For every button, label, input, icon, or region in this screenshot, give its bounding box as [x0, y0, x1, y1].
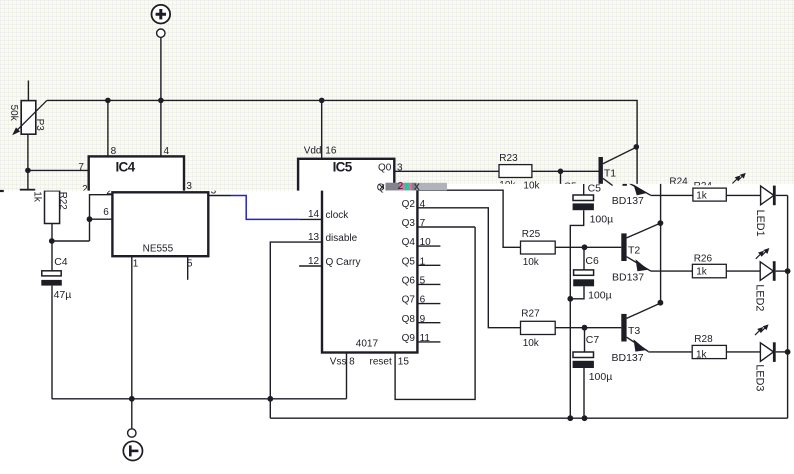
ground rail 1 — [52, 398, 347, 400]
transistor T1 (fresh fragments) — [623, 159, 651, 195]
transistor T3 — [621, 303, 660, 352]
resistor R22 (fresh box) — [45, 191, 60, 224]
wire power rail — [47, 100, 637, 184]
redraw smudge artifact — [377, 181, 447, 194]
LED1 — [761, 186, 788, 206]
svg-text:C5: C5 — [588, 182, 602, 194]
wire Vss to gnd — [346, 353, 348, 399]
wire R24 to LED1 — [726, 194, 760, 196]
svg-text:1: 1 — [420, 256, 426, 267]
svg-text:2: 2 — [398, 181, 404, 192]
svg-text:100µ: 100µ — [589, 371, 613, 383]
svg-text:15: 15 — [398, 357, 410, 368]
svg-text:Q7: Q7 — [402, 295, 416, 306]
svg-text:10k: 10k — [523, 180, 540, 191]
pin 16 wire (Vdd) — [321, 100, 323, 158]
node dot LED3/rail — [785, 349, 791, 355]
wire pin7 to IC4 — [28, 169, 89, 171]
svg-text:8: 8 — [111, 146, 117, 157]
ground rail 2 — [270, 417, 787, 419]
svg-text:11: 11 — [420, 333, 431, 344]
svg-text:1: 1 — [133, 259, 139, 270]
pin stubs Q4-Q9 — [417, 246, 440, 342]
svg-text:LED2: LED2 — [753, 284, 765, 311]
wire Q1 to R25 — [417, 190, 520, 247]
svg-text:T2: T2 — [628, 244, 640, 256]
potentiometer P3 — [12, 81, 47, 191]
wire T3 emitter to R28 — [648, 351, 692, 353]
svg-text:IC5: IC5 — [333, 159, 353, 174]
wire Q0 to R23 — [394, 170, 499, 172]
IC4 box (stale) — [89, 156, 184, 196]
svg-text:Q9: Q9 — [402, 333, 416, 344]
LED2 emission arrows — [756, 249, 769, 259]
node dot C6 tap — [582, 244, 588, 250]
svg-text:NE555: NE555 — [143, 243, 174, 254]
node dot T1 collector — [634, 144, 640, 150]
svg-text:1k: 1k — [696, 267, 708, 278]
svg-text:Vdd: Vdd — [304, 145, 322, 156]
svg-text:3: 3 — [186, 181, 192, 192]
capacitor C6 — [570, 247, 594, 298]
svg-text:T1: T1 — [604, 167, 616, 179]
wire pin 1 down — [131, 256, 133, 399]
node junction rail2/C5-C6 — [567, 415, 573, 421]
svg-text:1k: 1k — [696, 190, 708, 201]
wire disable pin — [270, 242, 322, 418]
svg-text:IC4: IC4 — [116, 159, 136, 174]
svg-text:Q Carry: Q Carry — [326, 257, 361, 268]
ghost label R24 (fresh, sliver) — [694, 181, 713, 192]
svg-text:BD137: BD137 — [612, 352, 644, 364]
wire pin6 stub — [90, 218, 113, 220]
svg-text:BD137: BD137 — [612, 195, 644, 207]
node dot P3/pin7 — [25, 168, 31, 174]
wire R25 to T2 base — [555, 246, 621, 248]
grid band (top region) — [0, 0, 794, 191]
svg-text:Vss: Vss — [330, 357, 347, 368]
svg-text:C4: C4 — [54, 256, 68, 268]
svg-text:R26: R26 — [694, 253, 713, 264]
wire reset to Q3 — [395, 227, 475, 399]
svg-text:8: 8 — [349, 357, 355, 368]
ground connector — [123, 399, 142, 461]
svg-text:clock: clock — [326, 210, 350, 221]
svg-text:100µ: 100µ — [588, 290, 612, 302]
svg-text:50k: 50k — [8, 105, 19, 122]
resistor R28 — [692, 345, 726, 358]
wire Q Carry stub — [299, 265, 322, 267]
wire supply to rail — [160, 37, 162, 100]
svg-text:R23: R23 — [499, 153, 518, 164]
wire R27 to T3 base — [555, 327, 621, 329]
vertical collector rail — [660, 148, 662, 303]
transistor T1 (stale) base bar — [599, 157, 603, 184]
svg-text:LED3: LED3 — [754, 364, 766, 391]
wire R23 to T1 base — [532, 170, 599, 172]
node junction rail/pin8 — [105, 98, 111, 104]
svg-text:disable: disable — [326, 233, 358, 244]
stale R22 top edge fragment — [20, 189, 35, 191]
node dot T3 collector — [658, 300, 664, 306]
svg-text:47µ: 47µ — [54, 289, 72, 301]
resistor R23 — [499, 165, 532, 178]
node junction rail2/C7 — [582, 415, 588, 421]
svg-text:Q2: Q2 — [402, 199, 416, 210]
node junction rail/Vdd — [319, 98, 325, 104]
wire T1 emitter to R24 — [651, 194, 693, 196]
capacitor C4 — [41, 241, 62, 399]
svg-text:1k: 1k — [31, 191, 42, 203]
svg-text:5: 5 — [420, 276, 426, 287]
node dot T2 collector — [658, 220, 664, 226]
svg-text:R25: R25 — [522, 229, 541, 240]
svg-text:C6: C6 — [585, 255, 599, 267]
wire pin2 L-shape — [90, 195, 113, 241]
svg-text:4: 4 — [420, 199, 426, 210]
svg-text:9: 9 — [420, 314, 426, 325]
IC5 box (stale) — [298, 159, 394, 199]
svg-text:16: 16 — [325, 145, 337, 156]
resistor R24 — [693, 188, 726, 201]
svg-text:Q8: Q8 — [402, 314, 416, 325]
wire Q2 to R27 — [417, 208, 520, 328]
svg-text:Q6: Q6 — [402, 276, 416, 287]
wire T2 emitter to R26 — [651, 270, 692, 272]
stale fragment left edge — [0, 190, 4, 192]
transistor T2 — [621, 223, 660, 271]
resistor R27 — [521, 321, 556, 334]
resistor R26 — [692, 264, 726, 278]
svg-text:10: 10 — [420, 237, 432, 248]
svg-text:Q5: Q5 — [402, 256, 416, 267]
svg-text:13: 13 — [308, 232, 320, 243]
node dot C5 tap — [558, 169, 564, 175]
node dot R22/C4 — [49, 238, 55, 244]
wire C5 stub (stale) — [560, 171, 562, 184]
svg-text:12: 12 — [308, 256, 320, 267]
node dot C7 tap — [582, 325, 588, 331]
svg-text:Q4: Q4 — [402, 237, 416, 248]
svg-text:LED1: LED1 — [754, 210, 766, 237]
right rail — [787, 195, 789, 418]
svg-text:6: 6 — [420, 295, 426, 306]
LED3 — [760, 342, 787, 362]
wire R28 to LED3 — [726, 351, 760, 353]
svg-text:P3: P3 — [34, 119, 45, 132]
svg-text:R27: R27 — [521, 309, 540, 320]
LED3 emission arrows — [755, 325, 768, 335]
node dot gnd/pin1 — [129, 396, 135, 402]
stale T1 emitter stub (spills below band) — [603, 178, 613, 185]
svg-text:10k: 10k — [523, 338, 540, 349]
svg-text:R22: R22 — [57, 192, 68, 210]
pin 8 wire — [107, 100, 109, 156]
resistor R25 — [521, 241, 556, 254]
svg-text:14: 14 — [308, 209, 320, 220]
svg-text:7: 7 — [78, 162, 84, 173]
pin 4 wire — [160, 100, 162, 156]
svg-text:4: 4 — [164, 146, 170, 157]
svg-text:1k: 1k — [696, 350, 708, 361]
node dot LED2/rail — [785, 268, 791, 274]
wire blue net to clock — [232, 196, 300, 220]
svg-text:4017: 4017 — [356, 339, 379, 350]
svg-text:Q3: Q3 — [402, 218, 416, 229]
node dot disable/gnd — [267, 396, 273, 402]
svg-text:BD137: BD137 — [612, 271, 644, 283]
svg-text:Q0: Q0 — [378, 163, 392, 174]
capacitor C7 — [573, 328, 594, 419]
svg-text:T3: T3 — [628, 325, 640, 337]
IC5 box (fresh, top cut) — [322, 161, 417, 353]
svg-text:R28: R28 — [694, 334, 713, 345]
wire R26 to LED2 — [726, 270, 760, 272]
capacitor C5 — [570, 184, 594, 418]
svg-text:C7: C7 — [586, 334, 600, 346]
wire Q3 stub — [417, 226, 475, 228]
node dot pin6/pin2 — [87, 216, 93, 222]
T1 collector wire — [603, 147, 636, 164]
LED1 emission arrows (stale) — [732, 174, 745, 184]
node junction rail/supply — [158, 98, 164, 104]
svg-text:100µ: 100µ — [590, 214, 614, 226]
svg-text:7: 7 — [420, 218, 426, 229]
supply + symbol — [152, 5, 171, 38]
node dot C6/C5 rail — [567, 296, 573, 302]
IC4/NE555 box (fresh) — [112, 192, 208, 256]
wire pin 5 stub — [187, 256, 189, 280]
svg-text:6: 6 — [103, 207, 109, 218]
svg-text:10k: 10k — [523, 257, 540, 268]
wire to R22/C4 junction — [52, 240, 90, 242]
LED2 — [760, 261, 787, 281]
wire R22 bottom — [51, 224, 53, 242]
wire clock pin stub — [300, 218, 322, 220]
svg-text:reset: reset — [370, 357, 392, 368]
wire NE555 out (black part) — [208, 195, 231, 197]
